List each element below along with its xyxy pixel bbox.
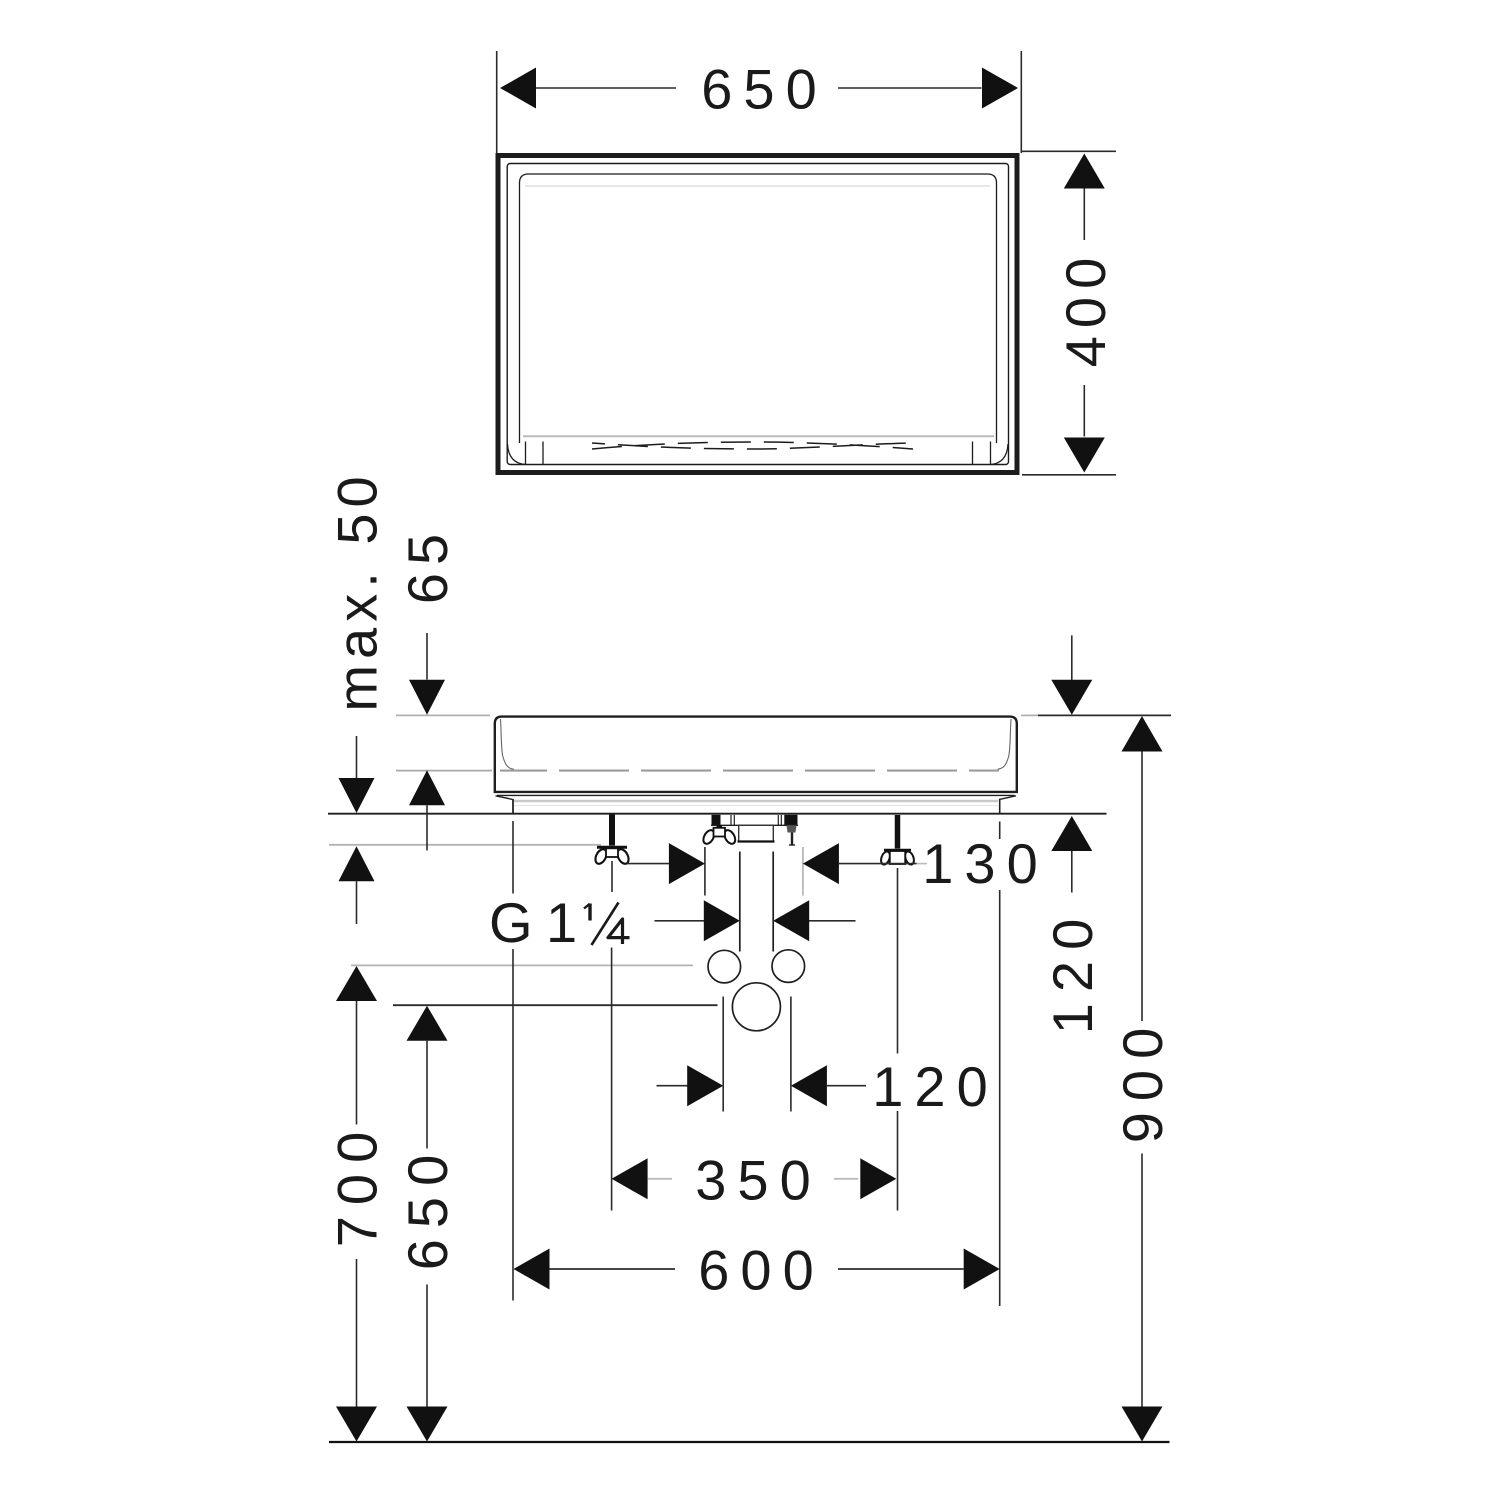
svg-text:120: 120 bbox=[1041, 908, 1104, 1034]
svg-text:600: 600 bbox=[698, 1239, 824, 1302]
svg-text:max. 50: max. 50 bbox=[326, 470, 389, 711]
svg-text:65: 65 bbox=[396, 526, 459, 604]
svg-text:900: 900 bbox=[1111, 1017, 1174, 1143]
svg-text:650: 650 bbox=[396, 1144, 459, 1270]
svg-text:350: 350 bbox=[695, 1148, 821, 1211]
svg-text:400: 400 bbox=[1054, 250, 1117, 367]
svg-text:650: 650 bbox=[701, 58, 827, 121]
svg-text:G: G bbox=[489, 891, 533, 954]
svg-text:120: 120 bbox=[872, 1055, 998, 1118]
svg-text:1: 1 bbox=[546, 891, 577, 954]
svg-text:700: 700 bbox=[326, 1121, 389, 1247]
svg-text:130: 130 bbox=[922, 832, 1048, 895]
